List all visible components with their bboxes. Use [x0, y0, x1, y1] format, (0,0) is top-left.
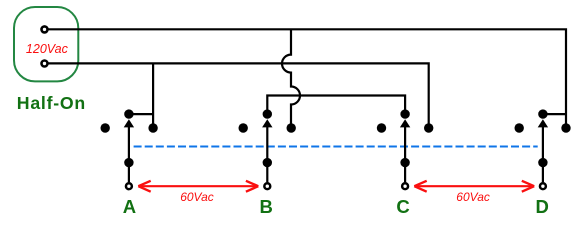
wire hot branch to B with hops — [282, 29, 300, 128]
svg-text:B: B — [260, 196, 273, 217]
wire A stem — [128, 126, 130, 183]
wire D stem — [542, 126, 544, 183]
svg-text:D: D — [536, 196, 549, 217]
svg-text:C: C — [396, 196, 409, 217]
node D top contact — [538, 109, 547, 118]
node C left contact — [377, 123, 386, 132]
svg-text:Half-On: Half-On — [17, 93, 86, 113]
wiper arrow C — [400, 119, 410, 127]
node B left contact — [239, 123, 248, 132]
node C right contact — [424, 123, 433, 132]
wire B stem — [266, 126, 268, 183]
wiper arrow B — [262, 119, 272, 127]
terminal circle top — [42, 26, 48, 32]
node D lower — [538, 158, 547, 167]
wiper arrow A — [124, 119, 134, 127]
wire A stub — [129, 113, 153, 115]
dimension arrow C-D — [414, 181, 534, 192]
wire branch to A right contact — [152, 63, 154, 128]
node B top contact — [263, 109, 272, 118]
socket C — [377, 109, 434, 189]
node C lower — [400, 158, 409, 167]
node C top contact — [400, 109, 409, 118]
dashed reference line — [134, 145, 538, 147]
svg-text:60Vac: 60Vac — [180, 190, 214, 204]
svg-text:120Vac: 120Vac — [26, 42, 69, 56]
node B lower — [263, 158, 272, 167]
terminal D — [540, 183, 546, 189]
terminal A — [126, 183, 132, 189]
socket D — [515, 109, 571, 189]
dimension arrow A-B — [138, 181, 258, 192]
terminal C — [402, 183, 408, 189]
svg-text:A: A — [123, 196, 136, 217]
node A top contact — [124, 109, 133, 118]
wire D stub — [543, 113, 566, 115]
source box (rounded rectangle) — [14, 7, 78, 81]
wire neutral (bottom) — [48, 63, 429, 128]
socket A — [101, 109, 158, 189]
node A lower — [124, 158, 133, 167]
wire hot (top) — [48, 29, 566, 128]
wiper arrow D — [538, 119, 548, 127]
node D right contact — [561, 123, 570, 132]
node B right contact — [287, 123, 296, 132]
terminal circle bottom — [42, 61, 48, 67]
socket B — [239, 109, 296, 189]
wire C stem — [404, 126, 406, 183]
terminal B — [264, 183, 270, 189]
svg-text:60Vac: 60Vac — [456, 190, 490, 204]
node A left contact — [101, 123, 110, 132]
wire B-C tops — [267, 96, 405, 115]
node A right contact — [148, 123, 157, 132]
node D left contact — [515, 123, 524, 132]
